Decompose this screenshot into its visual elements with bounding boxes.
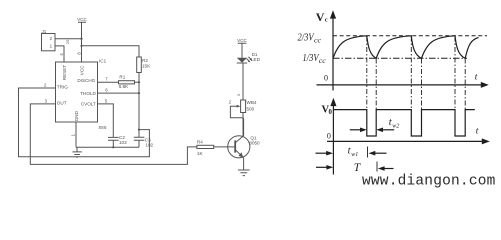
- tw2 right arrow: [381, 129, 394, 131]
- svg-text:0: 0: [327, 132, 331, 141]
- potentiometer WB4 body: [241, 100, 246, 113]
- wire pot bottom to Q1 collector: [242, 64, 244, 137]
- junction dot VCC/R2 feed: [80, 45, 82, 47]
- svg-text:0: 0: [324, 74, 328, 83]
- resistor R2 body: [137, 57, 142, 73]
- wire pin7 to R1: [98, 81, 119, 83]
- 2/3Vcc dashed level line: [333, 35, 487, 37]
- svg-text:6: 6: [105, 88, 108, 93]
- svg-text:2/3V: 2/3V: [298, 32, 315, 43]
- svg-text:R1: R1: [119, 75, 125, 80]
- tw1 left arrow: [316, 152, 329, 154]
- resistor R1 body: [119, 81, 135, 84]
- dash-dot drop line at first peak: [366, 37, 368, 110]
- svg-text:0: 0: [329, 109, 333, 116]
- tw2 left arrow: [350, 129, 363, 131]
- ground symbol (left): [72, 147, 81, 157]
- svg-text:3: 3: [45, 98, 48, 103]
- Vc plot y-axis: [332, 15, 334, 91]
- dash-dot rise line at second trough: [421, 59, 423, 110]
- T right arrow: [382, 168, 394, 170]
- svg-text:6.8K: 6.8K: [119, 84, 129, 89]
- svg-text:R2: R2: [142, 58, 148, 63]
- svg-text:GND: GND: [74, 110, 79, 121]
- svg-text:V: V: [316, 10, 325, 24]
- capacitor C2 plates: [108, 137, 119, 147]
- svg-text:IC1: IC1: [99, 59, 107, 64]
- wire GND pin down: [75, 122, 77, 147]
- wire node down to C3: [138, 82, 140, 137]
- svg-text:2: 2: [229, 100, 232, 105]
- svg-text:555: 555: [98, 125, 106, 131]
- svg-text:7: 7: [105, 77, 108, 82]
- LED D1 emission arrows: [247, 57, 252, 62]
- junction dot above C3: [138, 129, 140, 131]
- tick below axis at first drop: [367, 147, 369, 158]
- junction dot R1/R2: [138, 81, 140, 83]
- svg-text:THOLD: THOLD: [80, 91, 96, 96]
- svg-text:5: 5: [105, 99, 108, 104]
- connector J1: [42, 34, 56, 51]
- svg-text:T: T: [354, 162, 362, 174]
- dash-dot rise line at third trough: [464, 59, 466, 110]
- dash-dot drop line at second peak: [410, 37, 412, 110]
- svg-text:t: t: [476, 127, 479, 137]
- Vo square waveform: [333, 110, 474, 136]
- svg-text:3: 3: [236, 93, 241, 96]
- svg-text:2S: 2S: [66, 39, 70, 44]
- wire R4 to Q1 base: [214, 146, 236, 148]
- wire TRIG feedback link: [19, 88, 150, 157]
- Q1 collector: [235, 118, 243, 143]
- wire pin5 CVOLT to C2: [98, 104, 114, 137]
- Q1 emitter arrowhead: [239, 152, 244, 158]
- svg-text:DISCHG: DISCHG: [77, 78, 95, 83]
- svg-text:4: 4: [59, 53, 64, 56]
- Q1 base bar: [234, 140, 236, 152]
- svg-text:VCC: VCC: [79, 65, 84, 75]
- svg-text:t: t: [475, 73, 478, 83]
- svg-text:VCC: VCC: [237, 38, 247, 43]
- svg-text:2: 2: [44, 83, 47, 88]
- dash-dot drop line at third peak: [454, 37, 456, 110]
- svg-text:www.diangon.com: www.diangon.com: [362, 174, 496, 190]
- junction dot VCC/J1: [80, 38, 82, 40]
- ground bus wire: [76, 146, 139, 148]
- LED D1 cathode bar: [237, 62, 247, 64]
- 1/3Vcc dash-dot level line: [333, 57, 467, 59]
- svg-text:J1: J1: [42, 29, 47, 34]
- svg-text:102: 102: [145, 143, 153, 148]
- Vo plot x-axis: [327, 140, 485, 142]
- capacitor C3 plates: [134, 137, 145, 147]
- svg-text:VCC: VCC: [77, 17, 87, 22]
- Vo plot y-axis: [332, 102, 334, 175]
- svg-text:cc: cc: [314, 37, 322, 45]
- svg-text:RESET: RESET: [62, 65, 67, 81]
- svg-text:1K: 1K: [197, 151, 204, 156]
- svg-text:103: 103: [119, 140, 127, 145]
- tick below axis at first rise: [376, 162, 378, 172]
- op IC1 555 body: [56, 62, 98, 122]
- T left arrow: [316, 166, 329, 168]
- tw1 right arrow: [373, 152, 387, 154]
- svg-text:1: 1: [50, 43, 53, 48]
- svg-text:500: 500: [247, 106, 255, 111]
- svg-text:8050: 8050: [249, 140, 260, 145]
- wire VCC rail to R2 top: [82, 46, 140, 57]
- svg-text:w1: w1: [351, 152, 358, 158]
- svg-text:1: 1: [70, 133, 75, 136]
- svg-text:8: 8: [76, 52, 81, 55]
- Vc plot x-axis: [317, 84, 485, 86]
- svg-text:c: c: [325, 17, 328, 24]
- svg-text:LED: LED: [251, 57, 261, 62]
- wire OUT to base resistor: [30, 104, 197, 164]
- junction dot pin6: [138, 92, 140, 94]
- transistor Q1 circle: [228, 136, 250, 158]
- svg-text:OUT: OUT: [57, 100, 67, 105]
- svg-text:CVOLT: CVOLT: [81, 102, 96, 107]
- resistor R4 body: [197, 145, 214, 148]
- junction dot C2/ground bus: [112, 146, 114, 148]
- WB4 wiper loop wire: [230, 106, 243, 118]
- wire R2 bottom to node: [138, 73, 140, 83]
- svg-text:TRIG: TRIG: [57, 85, 68, 90]
- Vc capacitor waveform: [333, 36, 479, 59]
- svg-text:2: 2: [50, 36, 53, 41]
- LED D1 triangle: [237, 58, 247, 63]
- svg-text:R4: R4: [197, 140, 203, 145]
- svg-text:w2: w2: [392, 123, 399, 129]
- dash-dot rise line at first trough: [375, 59, 377, 110]
- wire pin6 THOLD to node: [98, 92, 140, 94]
- WB4 wiper arrow: [236, 105, 238, 107]
- wire J1 pin1 to IC pin4: [55, 46, 64, 62]
- svg-text:1/3V: 1/3V: [303, 53, 320, 64]
- svg-text:cc: cc: [319, 57, 327, 65]
- Q1 emitter: [235, 150, 243, 170]
- wire J1 pin2 to VCC rail: [55, 38, 82, 40]
- ground symbol (under Q1 emitter): [238, 170, 250, 176]
- svg-text:15K: 15K: [142, 64, 151, 69]
- wire R1 to vertical node: [135, 81, 140, 83]
- svg-text:WB4: WB4: [247, 100, 257, 105]
